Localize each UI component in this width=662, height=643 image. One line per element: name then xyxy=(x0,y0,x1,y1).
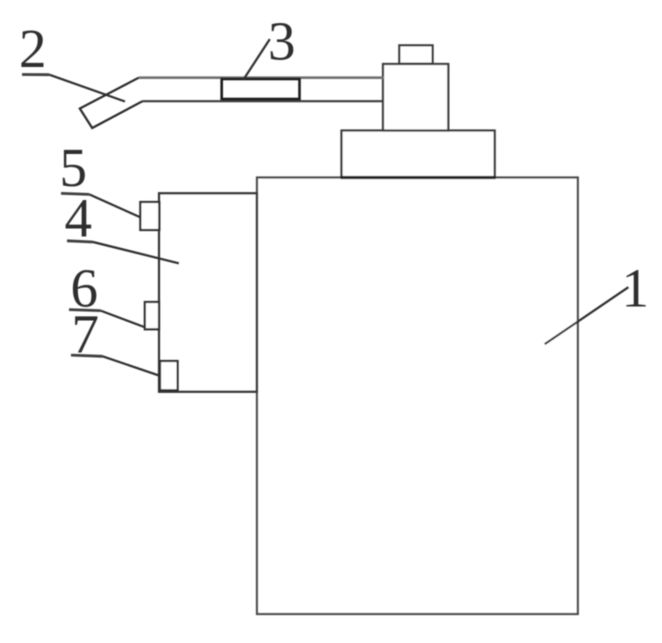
mounting base (wide rectangle on top of body) xyxy=(342,131,495,178)
label 1 leader line xyxy=(545,287,629,344)
side box 4 (rectangle attached to left of body) xyxy=(159,193,257,392)
label 6 leader line xyxy=(101,311,146,328)
tab 5 (small block upper left of box 4) xyxy=(140,202,159,230)
top knob (small square) xyxy=(399,45,432,63)
tab 7 (small block at bottom corner of box 4) xyxy=(160,361,178,390)
nozzle 2 (bent tip of arm) xyxy=(80,78,143,128)
spray arm bottom edge xyxy=(143,100,385,102)
spray arm top edge xyxy=(139,76,384,79)
valve neck (vertical rectangle) xyxy=(383,64,448,131)
label 5 underline xyxy=(61,193,89,194)
label 7 underline xyxy=(71,355,103,356)
tab 6 (small block lower left of box 4) xyxy=(145,302,159,329)
label 7 leader line xyxy=(103,356,160,375)
label 4 underline xyxy=(67,241,93,242)
label 6 underline xyxy=(69,310,101,311)
mounting base bottom edge (darker) xyxy=(341,176,496,179)
label 2 underline xyxy=(22,73,49,76)
housing body 1 (large rectangle) xyxy=(257,178,578,615)
label 5 leader line xyxy=(89,194,140,217)
sleeve 3 (rectangle on the arm) xyxy=(222,79,300,99)
svg-text:3: 3 xyxy=(268,11,296,72)
label 3 leader line xyxy=(244,39,270,79)
svg-text:4: 4 xyxy=(65,188,93,249)
label 4 leader line xyxy=(93,242,179,263)
svg-text:2: 2 xyxy=(19,18,47,79)
label 2 leader line xyxy=(49,75,125,102)
